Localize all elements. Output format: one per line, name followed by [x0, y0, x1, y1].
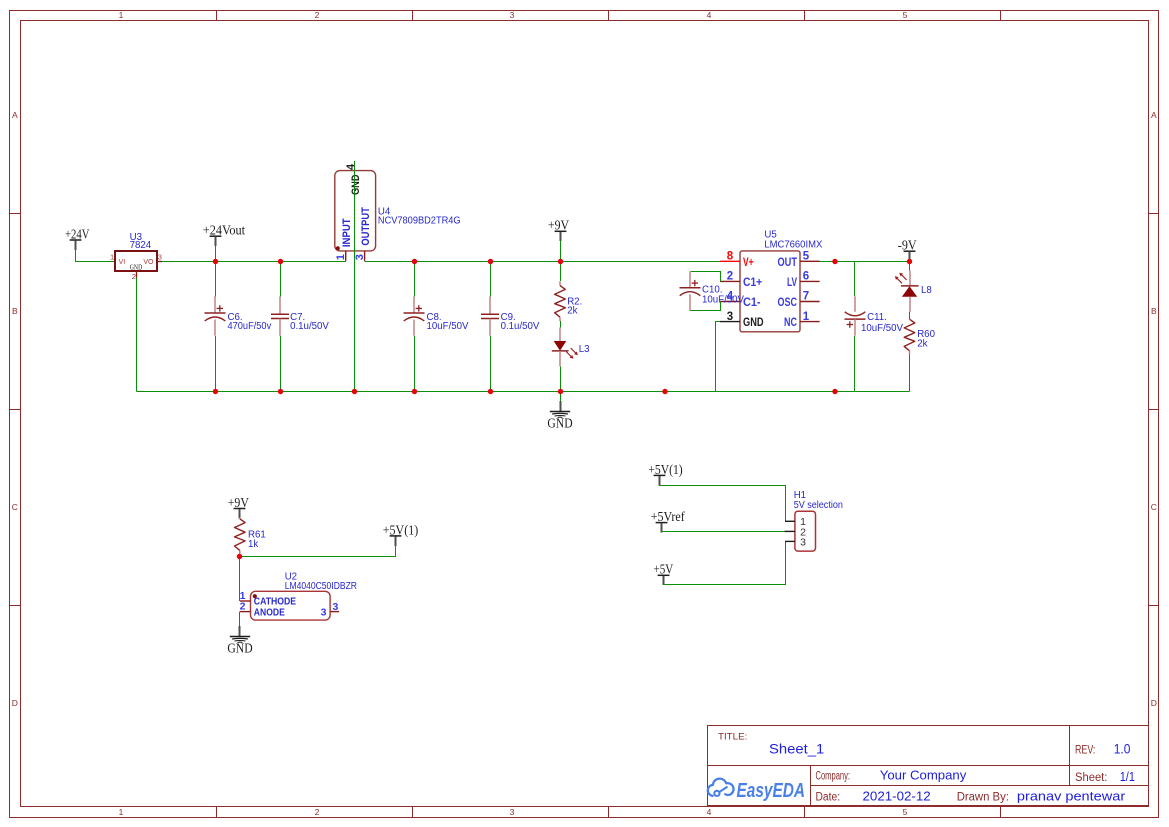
wire C8 top	[414, 262, 416, 297]
svg-text:OSC: OSC	[778, 297, 798, 309]
EasyEDA logo	[708, 779, 805, 802]
ground GND main	[547, 401, 573, 431]
junction dot C9 rail	[488, 259, 493, 264]
junction dot C8 rail	[412, 259, 417, 264]
svg-text:LMC7660IMX: LMC7660IMX	[764, 239, 822, 250]
svg-text:Your Company: Your Company	[880, 768, 967, 783]
svg-text:Drawn By:: Drawn By:	[957, 791, 1009, 803]
svg-text:3: 3	[354, 254, 366, 260]
svg-text:1/1: 1/1	[1120, 769, 1135, 784]
wire +5Vref to H1 pin2	[662, 531, 786, 532]
wire R60 to rail	[909, 355, 911, 392]
LED L3	[552, 328, 590, 367]
svg-text:+5V(1): +5V(1)	[383, 522, 418, 537]
net flag +24V	[65, 226, 90, 250]
wire C11 bottom	[854, 336, 856, 392]
svg-text:LV: LV	[787, 277, 797, 289]
svg-text:2: 2	[240, 601, 246, 613]
capacitor C9 0.1u/50V	[481, 296, 540, 335]
svg-text:2: 2	[315, 807, 320, 817]
svg-text:3: 3	[321, 606, 327, 618]
net flag +9V lower	[228, 495, 250, 519]
wire U5 GND pin3	[716, 322, 721, 392]
junction dot U4 ground	[352, 389, 357, 394]
svg-text:2: 2	[132, 272, 136, 281]
wire R61 to node	[239, 555, 241, 557]
wire U2 anode to ground	[239, 612, 241, 627]
svg-text:INPUT: INPUT	[341, 218, 353, 247]
junction dot -9V node	[907, 259, 912, 264]
net flag +5Vref	[651, 509, 686, 533]
svg-text:3: 3	[510, 807, 515, 817]
resistor R2 2k	[555, 281, 583, 321]
junction dot C6 ground	[213, 389, 218, 394]
net flag +5V(1) lower	[383, 522, 418, 546]
svg-text:A: A	[12, 110, 18, 120]
svg-text:10uF/50V: 10uF/50V	[861, 323, 904, 334]
svg-text:ANODE: ANODE	[254, 606, 285, 618]
junction dot C8 ground	[412, 389, 417, 394]
svg-text:4: 4	[707, 807, 712, 817]
voltage reference U2 LM4040C50IDBZR	[240, 571, 357, 620]
junction dot C7 ground	[278, 389, 283, 394]
svg-text:3: 3	[727, 311, 733, 323]
junction dot GND symbol node	[558, 389, 563, 394]
wire R2 to L3	[560, 321, 562, 327]
wire node to +5V(1) flag	[240, 546, 396, 557]
junction dot OUT rail	[832, 259, 837, 264]
junction dot C11 ground	[832, 389, 837, 394]
svg-text:2: 2	[315, 10, 320, 20]
wire L8 to R60	[909, 312, 911, 319]
wire -9V to L8	[909, 262, 911, 271]
svg-text:4: 4	[707, 10, 712, 20]
voltage regulator U4 NCV7809BD2TR4G	[335, 163, 461, 261]
capacitor C8 10uF/50V	[404, 296, 470, 335]
wire +5V to H1 pin3	[664, 542, 786, 585]
resistor R61 1k	[235, 518, 266, 555]
wire C9 bottom	[490, 336, 492, 392]
svg-text:+9V: +9V	[228, 495, 250, 510]
net flag +9V	[548, 218, 570, 242]
svg-text:C1+: C1+	[743, 277, 762, 289]
wire bottom ground rail	[137, 391, 910, 393]
svg-text:1: 1	[803, 311, 810, 323]
wire C6 bottom	[215, 336, 217, 392]
wire C7 top	[280, 262, 282, 297]
junction dot +9V rail	[558, 259, 563, 264]
capacitor C10 10uF/50V	[680, 272, 745, 311]
wire node down to U2 pin1	[239, 557, 241, 602]
svg-text:D: D	[1151, 698, 1157, 708]
svg-text:A: A	[1151, 110, 1157, 120]
svg-text:VO: VO	[143, 259, 154, 266]
svg-text:2k: 2k	[917, 339, 927, 350]
svg-text:+5V(1): +5V(1)	[648, 462, 682, 477]
junction dot C9 ground	[488, 389, 493, 394]
svg-text:L3: L3	[579, 344, 590, 355]
svg-text:+5V: +5V	[654, 562, 674, 577]
svg-text:Company:: Company:	[816, 771, 851, 783]
wire +9V stub	[560, 240, 562, 261]
wire C10 top loop	[691, 272, 721, 282]
svg-text:1: 1	[119, 807, 124, 817]
svg-text:+24V: +24V	[65, 226, 90, 241]
capacitor C6 470uF/50v	[205, 296, 272, 335]
title block text fields	[718, 731, 1135, 803]
wire -9V stub	[909, 252, 911, 262]
voltage regulator U3 7824	[110, 232, 162, 281]
svg-text:7: 7	[803, 291, 809, 303]
svg-text:GND: GND	[227, 641, 253, 656]
svg-text:D: D	[12, 698, 18, 708]
svg-text:10uF/50V: 10uF/50V	[702, 294, 745, 305]
svg-text:LM4040C50IDBZR: LM4040C50IDBZR	[285, 581, 357, 592]
svg-text:OUTPUT: OUTPUT	[360, 207, 372, 246]
svg-text:Date:: Date:	[816, 791, 841, 803]
svg-text:VI: VI	[119, 259, 126, 266]
net flag +5V	[654, 562, 674, 586]
svg-text:10uF/50V: 10uF/50V	[427, 321, 470, 332]
svg-text:L8: L8	[921, 285, 932, 296]
wire rail to GND symbol	[560, 392, 562, 402]
ground GND U2	[227, 626, 253, 655]
junction dot R61 node	[237, 554, 242, 559]
wire C10 bottom loop	[691, 302, 721, 311]
svg-text:Sheet_1: Sheet_1	[769, 741, 825, 757]
svg-text:pranav pentewar: pranav pentewar	[1017, 788, 1126, 803]
svg-text:8: 8	[727, 251, 734, 263]
wire C6 top	[215, 262, 217, 297]
svg-text:-9V: -9V	[898, 238, 917, 253]
wire U3 output rail	[162, 261, 346, 263]
svg-text:5: 5	[803, 251, 810, 263]
wire U4 GND vertical	[354, 161, 356, 392]
svg-text:C: C	[1151, 502, 1157, 512]
svg-text:2021-02-12: 2021-02-12	[863, 788, 931, 803]
svg-text:GND: GND	[743, 317, 764, 329]
svg-text:Sheet:: Sheet:	[1075, 772, 1107, 784]
net flag +5V(1) upper	[648, 462, 682, 486]
svg-text:C1-: C1-	[743, 297, 761, 309]
svg-text:OUT: OUT	[778, 257, 798, 269]
svg-text:7824: 7824	[130, 240, 152, 251]
wire +24Vout stub	[215, 245, 217, 262]
svg-text:EasyEDA: EasyEDA	[737, 780, 806, 802]
svg-text:3: 3	[800, 536, 806, 548]
svg-text:NC: NC	[784, 317, 797, 329]
svg-text:0.1u/50V: 0.1u/50V	[290, 321, 329, 332]
wire L3 to ground rail	[560, 366, 562, 391]
svg-text:3: 3	[333, 601, 339, 613]
svg-text:1.0: 1.0	[1114, 741, 1131, 757]
svg-text:+5Vref: +5Vref	[651, 509, 686, 524]
svg-text:470uF/50v: 470uF/50v	[228, 321, 272, 332]
wire +5V(1) to H1 pin1	[660, 484, 786, 521]
svg-text:5V selection: 5V selection	[794, 500, 843, 511]
header H1 5V selection	[785, 490, 843, 551]
wire U5 OUT to -9V	[820, 261, 910, 263]
wire U3 GND down	[136, 278, 138, 392]
svg-text:GND: GND	[547, 416, 573, 431]
net flag +24Vout	[203, 223, 246, 247]
wire C7 bottom	[280, 336, 282, 392]
svg-text:3: 3	[510, 10, 515, 20]
svg-text:4: 4	[345, 163, 357, 170]
resistor R60 2k	[904, 319, 935, 354]
wire C11 top	[854, 262, 856, 297]
capacitor C11 10uF/50V	[845, 296, 904, 336]
svg-text:C11.: C11.	[867, 312, 887, 323]
junction dot mid ground rail	[662, 389, 667, 394]
svg-text:NCV7809BD2TR4G: NCV7809BD2TR4G	[378, 215, 461, 226]
svg-text:V+: V+	[743, 257, 754, 269]
net flag -9V	[898, 238, 917, 262]
svg-text:2: 2	[727, 271, 733, 283]
svg-text:1: 1	[335, 254, 347, 260]
svg-text:GND: GND	[130, 264, 143, 272]
svg-text:+9V: +9V	[548, 218, 570, 233]
wire C9 top	[490, 262, 492, 297]
wire +24V to U3	[76, 249, 116, 262]
svg-text:B: B	[1151, 306, 1157, 316]
svg-text:+24Vout: +24Vout	[203, 223, 246, 238]
title block frame	[708, 726, 1149, 806]
svg-text:B: B	[12, 306, 18, 316]
wire C8 bottom	[414, 336, 416, 392]
svg-text:0.1u/50V: 0.1u/50V	[501, 321, 540, 332]
svg-text:3: 3	[158, 253, 162, 262]
svg-text:C: C	[12, 502, 18, 512]
wire +9V to R2	[560, 262, 562, 282]
junction dot C7 rail	[278, 259, 283, 264]
svg-text:GND: GND	[350, 174, 362, 195]
svg-text:TITLE:: TITLE:	[718, 731, 747, 742]
svg-text:1: 1	[110, 253, 114, 262]
LED L8	[895, 271, 932, 312]
svg-text:1: 1	[119, 10, 124, 20]
charge pump U5 LMC7660IMX	[720, 230, 823, 332]
svg-text:6: 6	[803, 271, 809, 283]
svg-text:5: 5	[903, 10, 908, 20]
capacitor C7 0.1u/50V	[271, 296, 329, 335]
wire rail U4-out to U5	[365, 261, 721, 263]
svg-text:REV:: REV:	[1075, 743, 1095, 757]
svg-text:5: 5	[903, 807, 908, 817]
junction dot +24Vout rail	[213, 259, 218, 264]
svg-text:2k: 2k	[567, 306, 577, 317]
svg-text:1k: 1k	[248, 539, 258, 550]
